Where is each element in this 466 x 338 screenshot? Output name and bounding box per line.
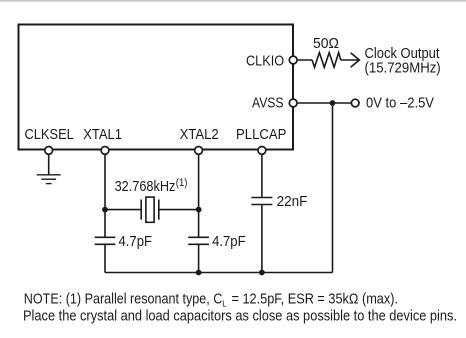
top frame line (decorative)	[0, 0, 466, 2]
wire XTAL1 down	[104, 151, 106, 238]
capacitor C1 4.7pF plates	[95, 236, 116, 238]
svg-text:(1): (1)	[176, 177, 188, 189]
svg-text:= 12.5pF, ESR = 35kΩ (max).: = 12.5pF, ESR = 35kΩ (max).	[232, 291, 399, 308]
wire arrow shaft	[341, 59, 359, 61]
wire crystal right lead	[159, 209, 199, 211]
pin CLKIO	[289, 56, 297, 64]
svg-text:NOTE: (1) Parallel resonant ty: NOTE: (1) Parallel resonant type, C	[24, 291, 223, 308]
junction node XTAL2/crystal	[196, 207, 202, 213]
wire C1 to rail	[104, 244, 106, 272]
svg-text:PLLCAP: PLLCAP	[236, 126, 286, 143]
svg-text:4.7pF: 4.7pF	[119, 233, 153, 250]
svg-text:22nF: 22nF	[277, 193, 308, 210]
pin AVSS	[289, 99, 297, 107]
svg-text:(15.729MHz): (15.729MHz)	[365, 60, 441, 77]
arrowhead clock output	[351, 53, 360, 67]
resistor R1 50ohm	[312, 53, 341, 68]
wire C2 to rail	[198, 244, 200, 272]
wire crystal left lead	[105, 209, 141, 211]
pin PLLCAP	[258, 147, 266, 155]
svg-text:0V to –2.5V: 0V to –2.5V	[366, 94, 434, 111]
wire riser rail to AVSS	[332, 103, 334, 273]
wire CLKIO to resistor	[293, 59, 312, 61]
terminal 0V	[351, 99, 359, 107]
svg-text:Place the crystal and load cap: Place the crystal and load capacitors as…	[23, 308, 457, 325]
pin XTAL2	[195, 147, 203, 155]
junction node XTAL1/crystal	[102, 207, 108, 213]
svg-text:4.7pF: 4.7pF	[212, 233, 246, 250]
wire CLKSEL to ground	[48, 151, 50, 175]
wire C3 to rail	[261, 205, 263, 273]
pin XTAL1	[101, 147, 109, 155]
wire XTAL2 down	[198, 151, 200, 238]
svg-text:CLKSEL: CLKSEL	[25, 126, 74, 143]
svg-text:32.768kHz: 32.768kHz	[115, 178, 176, 195]
svg-text:CLKIO: CLKIO	[246, 52, 284, 69]
capacitor C2 4.7pF plates	[188, 236, 209, 238]
ground	[37, 174, 61, 176]
pin CLKSEL	[45, 147, 53, 155]
wire PLLCAP down	[261, 151, 263, 198]
svg-text:50Ω: 50Ω	[313, 35, 339, 52]
crystal Y1 body	[146, 197, 154, 222]
junction node AVSS/riser	[330, 100, 336, 106]
wire AVSS to terminal	[293, 102, 351, 104]
junction node rail/C3	[259, 270, 265, 276]
junction node rail/C2	[196, 270, 202, 276]
capacitor C3 22nF plates	[251, 197, 272, 199]
wire bottom rail	[105, 272, 333, 274]
svg-text:XTAL1: XTAL1	[83, 126, 122, 143]
crystal Y1 plates	[140, 200, 142, 220]
svg-text:AVSS: AVSS	[252, 94, 284, 111]
IC box U1	[19, 25, 294, 150]
svg-text:XTAL2: XTAL2	[180, 126, 219, 143]
